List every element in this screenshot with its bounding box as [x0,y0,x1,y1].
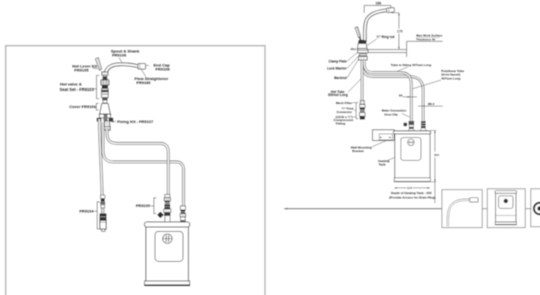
svg-text:Ø6.4: Ø6.4 [428,102,435,106]
wall mounting bracket [373,130,395,141]
label ring nut [367,35,395,45]
tank knob (right) [408,139,415,146]
svg-text:Backnut: Backnut [334,76,348,80]
backnut [104,126,110,130]
FR9104 bracket [94,202,99,229]
tank (right panel) rim [393,131,430,134]
svg-text:Connector: Connector [337,110,353,114]
top dimension 150 [364,5,391,13]
thumbnail knob partial [534,203,540,214]
svg-text:150: 150 [375,1,381,5]
label Hot Lever Kit FR9105 [72,63,98,72]
svg-text:Cover FR9101: Cover FR9101 [69,104,96,109]
valve seat parts [102,98,107,103]
svg-text:500mm Long: 500mm Long [328,93,348,97]
right faucet spout tube [365,10,388,42]
hot tube down [361,61,364,101]
svg-text:350: 350 [434,153,439,157]
svg-text:FR9106: FR9106 [112,52,127,57]
thumbnail spout tip [470,198,478,202]
label flow connector [337,107,357,114]
label clamp plate [329,52,358,63]
tank body [146,227,188,281]
tank centre fitting stack [164,195,171,223]
label backnut [334,59,359,80]
tube B polythene vent tube [363,61,424,121]
dimension 84 [399,94,417,98]
dimension dia 6.4 [418,102,443,107]
thumbnail spout [448,200,470,227]
thumbnail connectors [482,208,531,210]
label water connection hose clip [382,109,410,118]
label 40 base [351,47,357,51]
svg-text:174: 174 [407,186,412,190]
label max work surface thickness [416,34,443,42]
label wall mounting bracket [351,141,386,153]
tank base (right) [394,178,430,182]
svg-text:Fitting: Fitting [336,121,346,125]
tank right fitting stack [180,206,185,222]
svg-text:Tank: Tank [379,162,386,166]
tank front panel [155,231,183,261]
svg-text:FR9104: FR9104 [79,209,94,214]
valve body [102,89,109,98]
base plate [100,114,111,118]
tank panel (right) [401,138,421,161]
thumbnail box 1 (spout) [442,190,482,228]
threaded shank [104,121,109,126]
hot inlet tube (left) [99,119,102,195]
left panel frame [6,46,265,295]
svg-text:Mesh Filter: Mesh Filter [336,101,353,105]
mesh filter stack [360,101,366,120]
right dimension 175 [391,13,403,50]
svg-text:Hot valve &: Hot valve & [60,81,82,86]
mesh filter bracket [356,103,358,119]
svg-text:Thickness 40: Thickness 40 [416,38,435,42]
tank left fitting [408,121,414,130]
right faucet body [358,40,368,51]
counter / work surface [351,41,443,57]
svg-text:Hose Clip: Hose Clip [384,112,398,116]
svg-text:175: 175 [397,30,403,34]
label End Cap FR9108 [146,63,170,72]
svg-text:Bracket: Bracket [352,149,363,153]
backnut [359,56,367,60]
label mesh filter [336,101,356,105]
svg-text:Tube to fitting 457mm Long: Tube to fitting 457mm Long [391,63,431,67]
svg-text:Lock Washer: Lock Washer [327,67,347,71]
label Cover FR9101 with bracket [69,103,98,110]
label polythene tube [413,69,465,89]
long connector line to thumbnails [284,208,443,210]
svg-text:FR9108: FR9108 [155,67,170,72]
body [358,44,367,49]
o-ring dark [102,86,108,89]
cover FR9101 body [100,104,111,114]
lever boss (dark) [359,40,366,43]
label tube to fitting [391,63,431,71]
svg-text:Fixing Kit - FR9107: Fixing Kit - FR9107 [117,119,154,124]
thumbnail tank [495,191,517,225]
lock washer [360,54,367,56]
svg-text:FR9180: FR9180 [136,80,151,85]
shank stack: top nut [102,72,108,75]
thumbnail box 2 (tank) [487,189,525,228]
svg-text:FR9100: FR9100 [136,203,151,208]
tank body (right) [395,134,430,178]
ring nut / base flange [358,49,368,51]
svg-text:½" Ring nut: ½" Ring nut [377,35,396,39]
label Fixing Kit FR9107 with arrow [111,119,154,124]
label heating tank [378,158,395,167]
FR9100 non-return valve diamond [158,212,165,218]
tube to tank centre fitting [107,128,168,195]
thumbnail box 3 (partial) [531,189,540,227]
fixing kit FR9107 clamps [97,118,101,122]
svg-text:Clamp Plate: Clamp Plate [329,60,347,64]
label Spout & Shank FR9106 [111,48,140,62]
label lock washer [327,55,359,70]
tube A faucet to tank [364,61,411,121]
height dimension 350 [430,130,439,203]
shank rings [102,76,107,78]
svg-text:Depth of Heating Tank : 205: Depth of Heating Tank : 205 [391,191,432,195]
label Hot valve & Seat Set FR9103 with bracket [60,75,100,98]
svg-text:FR9105: FR9105 [74,67,89,72]
label compression fitting [334,115,357,125]
tank right fitting [420,121,426,130]
right faucet end cap [387,8,395,13]
hot valve hex nut [101,80,109,85]
tank base [145,281,190,286]
hose clip [404,123,407,126]
tank knob [163,234,172,243]
svg-text:457mm Long: 457mm Long [441,76,460,80]
svg-text:84: 84 [399,94,403,98]
tube to tank right fitting [103,122,184,206]
svg-text:Seat Set - FR9103: Seat Set - FR9103 [60,87,95,92]
FR9104 filter stack [100,195,107,231]
label Flow Straightener FR9180 [135,69,169,85]
hot lever [96,58,102,71]
clamp plate [358,50,368,53]
svg-text:(Provide Access for Drain Plug: (Provide Access for Drain Plug) [389,196,435,200]
label hot tube [328,79,361,97]
FR9100 bracket [151,198,157,214]
right faucet lever [355,27,361,41]
spout & shank FR9106 spout tube [105,64,138,76]
end cap FR9108 body [138,64,146,69]
width dimension 174 [394,185,430,190]
tank (left panel) rim [145,222,190,227]
